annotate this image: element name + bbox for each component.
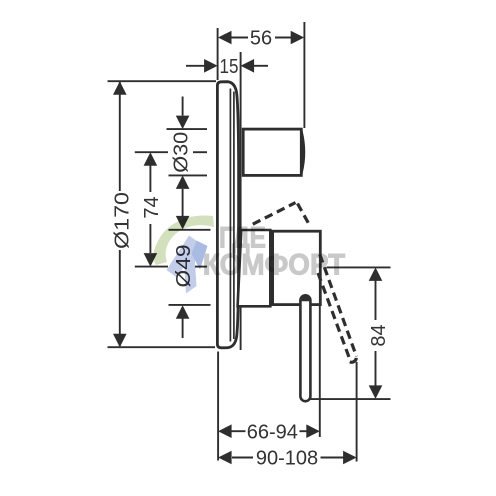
svg-text:66-94: 66-94: [247, 421, 298, 443]
plate contour line 2: [233, 92, 235, 340]
dashed rotated grip end face: [298, 204, 311, 227]
svg-text:15: 15: [220, 56, 239, 78]
shared tail O30/O49: [182, 189, 184, 217]
ext line O170 top: [108, 80, 217, 82]
tick 74 top (knob centerline): [135, 151, 168, 153]
plate contour line 1: [229, 89, 231, 342]
svg-text:90-108: 90-108: [256, 447, 318, 469]
dim 15 left tail: [186, 65, 205, 67]
ext lever reach (x=356.6): [356, 362, 358, 462]
handle cone: [238, 230, 271, 306]
arrow 74 down: [144, 253, 158, 267]
dim line 74: [149, 165, 151, 192]
knob end cap arc: [301, 132, 304, 174]
watermark logo green swoosh: [154, 215, 215, 265]
knob body: [243, 129, 301, 175]
tick knob top: [167, 128, 208, 130]
svg-text:Ø170: Ø170: [111, 192, 133, 249]
ext line O170 bottom: [108, 346, 216, 348]
tick O49 top: [169, 229, 211, 231]
arrow 56 right: [291, 31, 305, 45]
arrow 84 down: [369, 385, 383, 399]
dashed lever end cap: [350, 358, 357, 362]
dashed rotated grip top edge: [253, 203, 296, 225]
tick knob bottom: [169, 174, 208, 176]
dim line O170: [119, 81, 121, 191]
ext grip right down (x=319.8): [319, 306, 321, 438]
arrow 66-94 right: [306, 424, 320, 438]
arrow 66-94 left: [218, 424, 232, 438]
tick O49 bottom: [169, 304, 211, 306]
tick 74 bottom (handle centerline): [135, 266, 168, 268]
watermark logo teal wedge: [192, 241, 208, 270]
ext 84 bottom: [310, 398, 391, 400]
dim line 84: [375, 279, 377, 320]
ext 84 top: [327, 266, 391, 268]
ext line knob right (x=304.4): [303, 22, 305, 128]
dashed lever left line: [318, 273, 350, 361]
lever stick: [300, 295, 310, 401]
dim 15 right tail: [253, 65, 268, 67]
arrow O30 top (down): [176, 116, 190, 130]
grip body: [273, 231, 321, 304]
dim line 66-94: [230, 430, 246, 432]
dashed lever right line: [320, 255, 357, 357]
ext bottom left (x=218.1): [217, 352, 219, 461]
arrow 74 up: [144, 152, 158, 166]
svg-text:74: 74: [141, 196, 163, 218]
arrow 15 left (points right): [204, 59, 218, 73]
watermark logo blue check: [167, 236, 200, 278]
svg-text:56: 56: [250, 28, 272, 50]
escutcheon plate: [217, 82, 238, 348]
dim O49 tail bottom: [182, 319, 184, 339]
arrow O170 up: [113, 81, 127, 95]
arrow O30 bottom (up): [176, 175, 190, 189]
ext line left top (x=217.6): [217, 28, 219, 80]
svg-text:Ø30: Ø30: [170, 132, 192, 173]
arrow 90-108 left: [218, 451, 232, 465]
arrowheads: [113, 31, 382, 465]
arrow O170 down: [113, 334, 127, 348]
arrow 15 right (points left): [241, 59, 255, 73]
arrow 90-108 right: [343, 451, 357, 465]
centerline dash handle: [195, 266, 207, 268]
dim line 56: [230, 37, 248, 39]
arrow 84 up: [369, 267, 383, 281]
centerline dash knob: [193, 151, 207, 153]
dim line 90-108: [232, 457, 253, 459]
dim O30 tail top: [182, 97, 184, 116]
arrow 56 left: [218, 31, 232, 45]
svg-text:84: 84: [368, 324, 390, 346]
arrow O49 bottom (up): [176, 305, 190, 319]
svg-text:КОМФОРТ: КОМФОРТ: [203, 249, 346, 282]
arrow O49 top (down): [176, 216, 190, 230]
ext line wall (x=240.6): [240, 52, 242, 350]
